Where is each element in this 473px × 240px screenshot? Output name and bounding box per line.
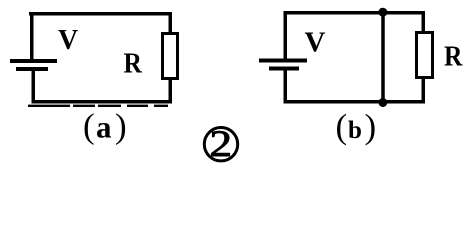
wire: circuit (b) top: [284, 11, 426, 15]
battery V (a): short plate: [16, 67, 48, 71]
wire: circuit (a) top: [29, 12, 172, 16]
figure number digit 2: [210, 123, 233, 164]
svg-text:a: a: [96, 110, 112, 145]
svg-text:): ): [365, 107, 377, 146]
svg-text:2: 2: [210, 123, 233, 164]
scan artifact: dashed echo line under (a) bottom wire: [28, 105, 168, 107]
wire: circuit (b) right upper (top wire down to resistor): [422, 11, 426, 32]
wire: circuit (a) left lower (battery down to bottom wire): [32, 71, 36, 104]
svg-text:b: b: [348, 117, 362, 144]
svg-text:R: R: [124, 47, 143, 79]
resistor R (b) body: [417, 33, 433, 78]
battery V (b): short plate: [269, 67, 299, 71]
wire: circuit (a) right upper (top wire down to resistor): [169, 12, 173, 33]
battery V (b): long plate: [259, 59, 307, 63]
resistor R (a) body: [163, 34, 178, 79]
junction node: bottom of middle branch: [378, 98, 387, 107]
wire: circuit (b) left lower (battery down to bottom wire): [284, 71, 288, 104]
label R (a): [124, 47, 143, 79]
figure number circle: [204, 128, 237, 161]
svg-text:(: (: [83, 107, 95, 146]
junction node: top of middle branch: [378, 8, 387, 17]
svg-text:V: V: [305, 27, 326, 59]
wire: circuit (b) middle branch: [381, 11, 385, 104]
wire: circuit (b) bottom: [284, 100, 426, 104]
label R (b): [444, 40, 463, 72]
svg-text:V: V: [58, 25, 78, 56]
battery V (a): long plate: [10, 59, 57, 63]
svg-text:(: (: [336, 107, 348, 146]
wire: circuit (b) right lower (resistor down to bottom wire): [422, 78, 426, 104]
svg-text:R: R: [444, 40, 463, 72]
svg-text:): ): [115, 107, 127, 146]
wire: circuit (a) right lower (resistor down to bottom wire): [169, 79, 173, 104]
wire: circuit (a) left upper (top wire down to battery): [30, 12, 34, 60]
wire: circuit (a) bottom: [32, 100, 173, 104]
wire: circuit (b) left upper (top wire down to battery): [284, 11, 288, 59]
